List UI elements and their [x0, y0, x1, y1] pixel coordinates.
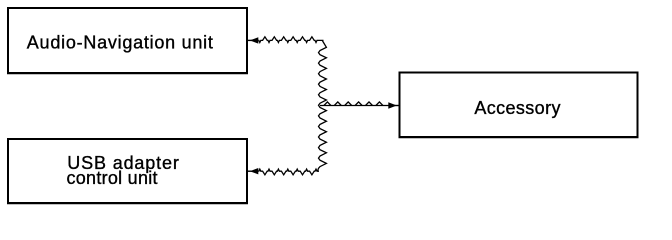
wire W3 branch baseline to Accessory: [320, 105, 390, 107]
wire W4 bottom zigzag from node N3 to USB adapter control unit: [258, 169, 319, 175]
block U1 Audio-Navigation unit: [7, 8, 248, 74]
wire W3 branch zigzag bumps: [324, 102, 383, 106]
svg-text:Audio-Navigation unit: Audio-Navigation unit: [27, 33, 214, 53]
svg-text:control unit: control unit: [67, 168, 158, 188]
block U2 USB adapter control unit: [7, 139, 248, 204]
arrowhead A1 into Audio-Navigation unit: [248, 37, 258, 43]
arrowhead A2 into Accessory: [388, 102, 398, 108]
node N2 junction with branch to Accessory: [320, 102, 390, 106]
wire W2 vertical zigzag from node N1 to node N3: [318, 40, 327, 171]
block U3 Accessory: [399, 73, 639, 138]
arrowhead A3 into USB adapter control unit: [248, 168, 258, 174]
svg-text:Accessory: Accessory: [474, 98, 560, 118]
wire W1 top zigzag from Audio-Navigation unit to node N1: [258, 37, 323, 43]
